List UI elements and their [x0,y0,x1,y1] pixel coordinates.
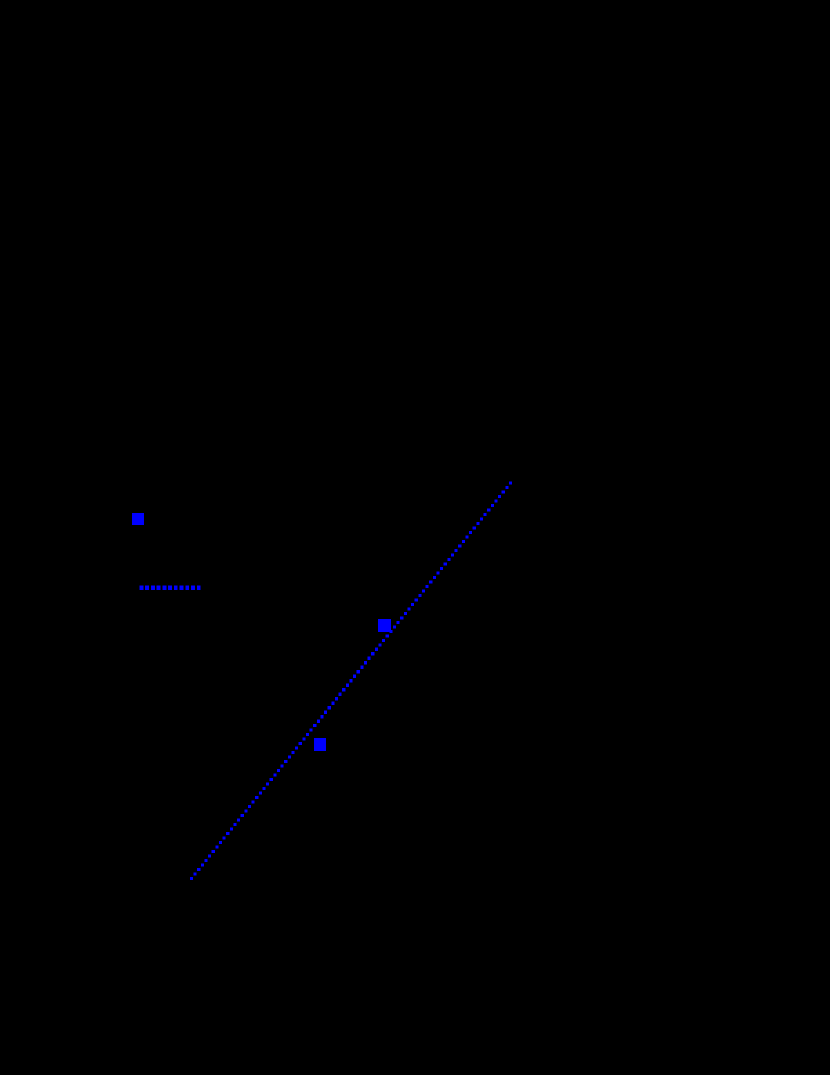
legend dotted line sample (fit legend entry) [139,585,200,589]
data point marker A [378,619,391,632]
fit line (dotted diagonal) [190,481,512,880]
data point marker B [314,738,326,751]
legend marker square (scatter legend entry) [132,513,144,525]
